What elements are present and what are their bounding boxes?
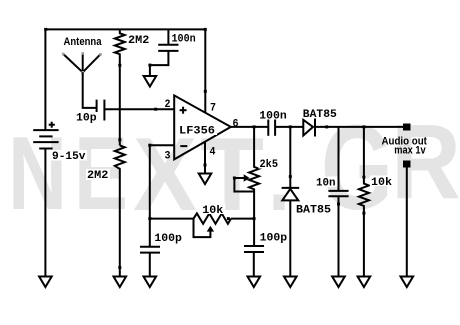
label Antenna (64, 36, 103, 48)
label 10n (315, 177, 338, 190)
junction dot 2M2 upper lead (118, 64, 121, 67)
battery plus sign (49, 122, 55, 128)
wire 100n bottom lead to ground (150, 51, 169, 76)
junction dot 100n ground corner (148, 64, 151, 67)
junction dot pin7 lead (44, 28, 207, 93)
svg-text:9-15v: 9-15v (52, 151, 86, 163)
label 100p right (259, 231, 289, 244)
ground 2M2 branch (114, 277, 127, 288)
junction dot shunt lead (289, 175, 292, 178)
ground pin 4 (199, 174, 212, 185)
svg-text:2M2: 2M2 (87, 170, 108, 182)
label 2M2 lower (86, 169, 110, 182)
svg-text:max 1v: max 1v (394, 145, 426, 157)
ground 10k load (358, 277, 371, 288)
ground 100p right (248, 277, 261, 288)
wire top supply rail (46, 28, 206, 30)
junction dot BAT85 shunt tap (289, 125, 292, 128)
label 9-15v (51, 150, 87, 163)
label 10k feedback (201, 204, 225, 217)
wire 100n to diode (275, 126, 303, 128)
wire feedback bottom right (231, 218, 254, 220)
svg-text:BAT85: BAT85 (303, 109, 337, 121)
ground battery (39, 277, 52, 288)
resistor R4 10k load (359, 127, 369, 277)
ground audio return (401, 277, 414, 288)
svg-text:R: R (391, 103, 460, 221)
label 100p left (153, 232, 183, 245)
potentiometer R3 2k5 (249, 127, 259, 246)
junction dot output node (253, 125, 256, 128)
label LF356 (178, 125, 217, 138)
label BAT85 series (302, 108, 339, 121)
svg-text:Antenna: Antenna (64, 36, 103, 48)
svg-text:10k: 10k (202, 205, 223, 217)
junction dot 2k5 wiper corner (233, 177, 236, 180)
junction dots feedback bus (227, 217, 256, 220)
pin label 2 (165, 99, 171, 111)
wire pin 7 supply (204, 29, 206, 112)
2k5 wiper arrow (234, 178, 254, 192)
wire battery positive lead (44, 29, 46, 130)
svg-text:7: 7 (210, 103, 216, 115)
svg-text:10k: 10k (371, 177, 392, 189)
wire 100p right to ground (253, 252, 255, 277)
svg-text:10p: 10p (76, 113, 97, 125)
wire 100p left to ground (149, 253, 151, 277)
resistor R2 2M2 lower (115, 145, 125, 276)
potentiometer R5 10k feedback (194, 213, 232, 223)
label 100n top (171, 33, 198, 46)
junction dot pin3 corner (148, 144, 151, 220)
resistor R1 2M2 upper (115, 29, 125, 145)
wire 10n top lead (338, 127, 340, 191)
junction dot 2M2 lower lead (118, 138, 121, 269)
capacitor C7 100p right (244, 246, 264, 252)
terminal audio out return (403, 161, 411, 168)
junction dots 10k leads (362, 176, 365, 215)
antenna (63, 53, 100, 72)
wire pin 3 feedback (150, 145, 174, 247)
junction dot 10n lead (337, 203, 340, 206)
antenna tip dots (62, 52, 102, 73)
wire battery negative lead (44, 149, 46, 277)
wire feedback bottom left (150, 218, 194, 220)
label 10p (75, 112, 98, 125)
wire pin 4 to ground (204, 142, 206, 174)
ground BAT85 shunt (284, 277, 297, 288)
pin label 3 (165, 151, 171, 163)
svg-text:100n: 100n (172, 34, 196, 46)
battery B1 9-15v (33, 130, 58, 148)
svg-text:.: . (268, 117, 290, 233)
pin label 4 (210, 147, 216, 159)
svg-text:BAT85: BAT85 (296, 204, 331, 216)
junction dots output bus (325, 125, 365, 128)
wire antenna lead (83, 72, 97, 108)
ground 10n (332, 277, 345, 288)
junction dot pin4 lead (204, 164, 207, 167)
pin label 6 (233, 119, 239, 131)
svg-text:2k5: 2k5 (260, 159, 279, 171)
label 2M2 upper (127, 34, 151, 47)
capacitor C5 10n (328, 191, 348, 196)
svg-text:2: 2 (165, 99, 171, 111)
10k wiper arrowhead (207, 226, 214, 232)
svg-text:100p: 100p (154, 233, 182, 245)
ground 100n (144, 76, 157, 87)
wire 100n top lead (167, 29, 169, 44)
svg-text:10n: 10n (316, 178, 336, 190)
ground 100p left (144, 277, 157, 288)
label 2k5 (259, 158, 281, 171)
10k feedback wiper (194, 219, 211, 238)
svg-text:2M2: 2M2 (128, 35, 149, 47)
label 100n output (258, 109, 288, 122)
watermark NEXT.GR (8, 99, 460, 235)
wire diode to output terminal (315, 126, 403, 128)
op-amp minus input sign (180, 145, 187, 147)
wire BAT85 shunt to ground (289, 200, 291, 276)
label 10k load (370, 176, 394, 189)
label BAT85 shunt (295, 203, 333, 216)
2k5 wiper arrowhead (244, 174, 250, 181)
capacitor C6 100p left (140, 247, 160, 253)
label Audio out (382, 135, 428, 147)
svg-text:4: 4 (210, 147, 216, 159)
capacitor C2 100n decoupling (158, 45, 178, 51)
terminal audio out positive (403, 124, 411, 131)
svg-text:100p: 100p (260, 232, 288, 244)
pin label 7 (210, 103, 216, 115)
wire 10p to pin 2 (104, 108, 174, 110)
svg-text:N: N (8, 116, 67, 232)
junction dot node IN (154, 108, 157, 111)
svg-text:6: 6 (233, 119, 239, 131)
svg-text:3: 3 (165, 151, 171, 163)
svg-text:100n: 100n (259, 110, 287, 122)
op-amp plus input sign (180, 107, 187, 114)
capacitor C3 100n output coupling (268, 116, 275, 135)
label max 1v (394, 145, 426, 157)
diode D2 BAT85 shunt (282, 188, 300, 201)
wire 10n bottom lead (338, 196, 340, 276)
wire audio return to ground (406, 168, 408, 277)
svg-text:LF356: LF356 (179, 126, 215, 138)
wire op-amp output (231, 126, 268, 128)
op-amp U1 LF356 (174, 95, 231, 159)
wire BAT85 shunt branch (289, 127, 291, 188)
diode D1 BAT85 series (303, 119, 315, 137)
capacitor 10p (97, 100, 105, 121)
